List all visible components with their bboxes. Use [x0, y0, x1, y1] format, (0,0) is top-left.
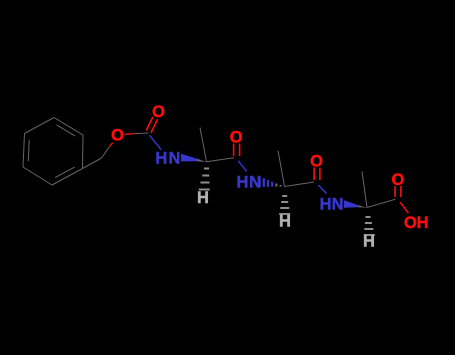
double bond C=O carbamate: [146, 117, 157, 133]
bond C4-OH: [400, 202, 408, 213]
double bond C3=O4 amide: [314, 168, 320, 181]
hashed wedge N2-Calpha2 (blue dashes): [260, 177, 281, 188]
svg-text:H: H: [197, 189, 209, 207]
bond C-N1: [150, 135, 162, 150]
bond Calpha2-C3 carbonyl: [285, 182, 315, 187]
bond C2-N2: [238, 161, 246, 172]
hashed bond Calpha1-H: [199, 169, 210, 190]
bond Calpha1-C2 carbonyl: [207, 158, 235, 162]
solid wedge N3-Calpha3 (gray tip): [358, 205, 367, 208]
bond Calpha3-CH3: [362, 172, 367, 208]
svg-text:O: O: [404, 214, 417, 232]
svg-text:H: H: [236, 174, 248, 192]
bond Calpha3-C4 carboxyl: [367, 199, 396, 207]
bond Calpha2-CH3: [278, 151, 285, 187]
bond Calpha1-CH3: [200, 128, 207, 162]
svg-text:O: O: [230, 129, 243, 147]
svg-text:O: O: [111, 127, 124, 145]
solid wedge N1-Calpha1 (gray tip): [197, 159, 207, 162]
svg-text:H: H: [279, 213, 291, 231]
svg-text:O: O: [310, 153, 323, 171]
svg-text:O: O: [152, 103, 165, 121]
bond CH2-O ester (red half): [110, 143, 113, 147]
svg-text:O: O: [391, 171, 404, 189]
solid wedge N1-Calpha1 (blue half): [181, 154, 197, 162]
bond ring-CH2: [83, 158, 102, 169]
bond CH2-O ester (gray half): [102, 147, 110, 159]
svg-text:H: H: [155, 150, 167, 168]
svg-text:N: N: [332, 196, 344, 214]
hashed bond Calpha3-H: [364, 217, 375, 235]
benzene ring of benzyl group: [23, 118, 83, 186]
hashed bond Calpha2-H: [279, 196, 290, 214]
svg-text:H: H: [363, 233, 375, 251]
bond O-C carbamate (gray half): [134, 132, 149, 135]
solid wedge N3-Calpha3 (blue half): [344, 200, 358, 207]
bond C3-N3: [318, 185, 326, 194]
bond O-C carbamate (red half): [125, 133, 134, 135]
double bond C2=O3 amide: [234, 144, 240, 157]
double bond C4=O5 carboxyl: [395, 186, 401, 197]
svg-text:H: H: [417, 214, 429, 232]
svg-text:H: H: [320, 196, 332, 214]
svg-text:N: N: [168, 150, 180, 168]
